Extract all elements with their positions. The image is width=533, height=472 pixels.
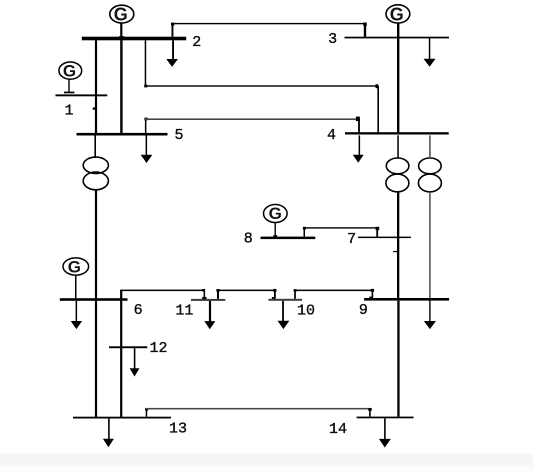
transformer T4-9 <box>418 158 441 192</box>
wire 5-4: horizontal run <box>145 118 360 120</box>
wire 2-4: elbow at bus-4 drop <box>376 84 379 88</box>
load arrow bus 10 <box>278 301 290 329</box>
load arrow bus 11 <box>204 301 215 329</box>
wire 9-14 vertical <box>397 301 399 417</box>
wire 5 to transformer T5-6 <box>94 136 96 159</box>
svg-text:G: G <box>269 204 282 223</box>
wire 2-4: drop from bus 2 <box>145 40 147 86</box>
bus 12 <box>109 346 147 348</box>
svg-text:2: 2 <box>192 34 201 51</box>
transformer T5-6 <box>83 157 108 190</box>
wire T4-7 to 7 to 9 <box>397 192 399 298</box>
wire T5-6 to bus 6 <box>95 190 97 299</box>
wire 4 to transformer T4-9 <box>429 135 431 158</box>
load arrow bus 12 <box>130 348 140 376</box>
wire 13-14: drop to bus 14 <box>369 409 371 417</box>
svg-text:G: G <box>390 4 404 24</box>
wire 2-4: horizontal run <box>145 85 378 86</box>
wire 2-5 vertical <box>120 40 122 133</box>
svg-text:G: G <box>63 61 76 80</box>
load arrow bus 5 <box>141 136 153 164</box>
wire 8-7: drop to bus 7 <box>376 228 378 237</box>
wire 8-7: riser from bus 8 <box>304 228 306 237</box>
bus 7 <box>358 237 411 239</box>
bus 3 <box>345 37 450 39</box>
wire 2-3: riser from bus 2 <box>172 23 174 37</box>
wire 6-11 drop to bus 11 <box>204 290 206 299</box>
svg-text:G: G <box>114 5 128 25</box>
load arrow bus 6 <box>71 301 82 329</box>
svg-text:6: 6 <box>134 302 143 319</box>
wire 6-13 vertical <box>95 301 97 418</box>
bus 10 <box>268 299 302 301</box>
load arrow bus 4 <box>353 135 364 163</box>
wire 2-3: drop to bus 3 <box>364 23 366 37</box>
wire 2-1 / 1-5 vertical <box>95 39 97 134</box>
bus 8 <box>261 237 316 240</box>
transformer T4-7 <box>386 158 409 192</box>
svg-text:1: 1 <box>64 103 73 120</box>
wire 11-10: horizontal run <box>217 290 276 292</box>
svg-text:8: 8 <box>244 230 253 247</box>
generator G8 <box>264 204 288 237</box>
wire 10-9: riser from bus 10 <box>294 290 296 298</box>
svg-text:14: 14 <box>329 421 347 438</box>
svg-text:9: 9 <box>359 302 368 319</box>
bus 6 <box>60 298 128 301</box>
wire 10-9: drop to bus 9 <box>372 290 374 298</box>
wire 5-4: drop to bus 4 <box>358 119 360 133</box>
load arrow bus 2 <box>166 40 178 67</box>
wire G3-3-4 vertical <box>397 23 399 133</box>
wire 4 to transformer T4-7 <box>397 135 399 158</box>
bus 2 <box>82 37 186 41</box>
wire 6-12-13 vertical <box>120 290 122 417</box>
bottom window band <box>0 454 533 466</box>
svg-text:4: 4 <box>327 127 336 144</box>
generator G6 <box>63 257 89 298</box>
svg-text:G: G <box>68 257 81 276</box>
wire 2-3: horizontal run <box>172 23 367 24</box>
svg-text:13: 13 <box>169 421 187 438</box>
wire 13-14: horizontal run <box>146 408 371 410</box>
wire 11-10: drop to bus 10 <box>274 290 276 298</box>
wire 5-4: elbow at bus-4 drop <box>356 117 360 122</box>
svg-text:7: 7 <box>347 231 356 248</box>
load arrow bus 3 <box>424 38 436 66</box>
wire 6-11 horizontal <box>120 290 205 292</box>
bus 1 <box>56 94 108 96</box>
load arrow bus 14 <box>379 418 391 447</box>
bus 9 <box>364 298 449 301</box>
load arrow bus 13 <box>103 419 114 448</box>
node tick on bus1 line <box>93 107 97 109</box>
wire T4-9 to bus 9 <box>429 192 431 298</box>
wire 13-14: riser from bus 13 <box>146 409 148 417</box>
wire 11-10: riser from bus 11 <box>217 290 219 299</box>
generator G3 <box>386 4 410 24</box>
svg-text:10: 10 <box>297 303 315 320</box>
svg-text:5: 5 <box>174 127 183 144</box>
wire 8-7: horizontal run <box>304 227 378 228</box>
svg-text:11: 11 <box>175 303 193 320</box>
generator G2 <box>110 5 134 41</box>
bus 14 <box>357 417 414 419</box>
wire 5-4: riser from bus 5 <box>145 118 147 132</box>
wire 2-4: drop to bus 4 <box>377 86 379 133</box>
bus 4 <box>345 132 449 134</box>
generator G1 <box>59 61 82 93</box>
bus 11 <box>191 299 225 301</box>
bus 13 <box>73 417 171 419</box>
svg-text:3: 3 <box>328 31 337 48</box>
svg-text:12: 12 <box>149 340 167 357</box>
load arrow bus 9 <box>424 298 436 329</box>
bus 5 <box>77 133 168 136</box>
wire 10-9: horizontal run <box>294 290 373 292</box>
wire 2-4: corner elbow <box>144 85 147 88</box>
node tick below bus 7 <box>393 251 397 252</box>
